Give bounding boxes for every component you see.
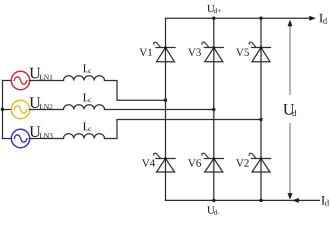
label ULN2 [30, 97, 53, 109]
arrow Ud down [288, 193, 293, 199]
inductor Lc3 [64, 134, 105, 139]
wire top rail [166, 17, 311, 19]
node phase2-leg2 junction [212, 108, 215, 111]
ac source ULN2 [11, 100, 29, 118]
label Lc2 [83, 93, 91, 102]
node bus junction dot [1, 108, 4, 111]
wire phase3 to leg3 midpoint [105, 120, 262, 139]
arrow Ud up [288, 20, 293, 26]
thyristor V4 [154, 153, 175, 172]
label Lc1 [83, 64, 91, 73]
wire bus to source 3 [3, 138, 12, 140]
node top rail leg3 junction [259, 17, 262, 20]
node bottom rail leg3 junction [259, 199, 262, 202]
thyristor V2 [249, 153, 270, 172]
thyristor V3 [202, 42, 223, 62]
label V3 [188, 49, 201, 56]
wire source2 to inductor2 [30, 109, 64, 111]
wire bridge leg 1 vertical [165, 18, 167, 200]
label V2 [236, 159, 249, 166]
label Ud+ [207, 5, 221, 13]
label Ud right [283, 104, 296, 116]
wire Ud measurement line upper [289, 26, 291, 95]
node phase3-leg3 junction [259, 118, 262, 121]
label Id bottom [321, 196, 329, 206]
label Ud- [207, 206, 219, 214]
arrow Id top [309, 16, 316, 21]
ac source ULN1 [11, 71, 29, 89]
label Id top [319, 14, 327, 24]
node phase1-leg1 junction [164, 99, 167, 102]
label V1 [139, 49, 152, 56]
label Lc3 [83, 122, 91, 131]
thyristor V5 [249, 42, 270, 62]
wire source3 to inductor3 [30, 138, 64, 140]
thyristor V1 [154, 42, 175, 62]
label ULN1 [30, 68, 53, 80]
wire bus to source 1 [3, 80, 12, 82]
wire bus to source 2 [3, 109, 12, 111]
wire bottom rail [166, 199, 320, 201]
label V5 [236, 49, 249, 56]
label ULN3 [30, 126, 53, 138]
wire bridge leg 2 vertical [213, 18, 215, 200]
inductor Lc2 [64, 105, 105, 110]
label V6 [188, 159, 201, 166]
ac source ULN3 [11, 129, 29, 147]
thyristor V6 [202, 153, 223, 172]
node bottom rail leg2 junction [212, 199, 215, 202]
wire bridge leg 3 vertical [260, 18, 262, 200]
node top rail leg2 junction [212, 17, 215, 20]
arrow Id bottom (pointing left) [292, 198, 299, 203]
wire source1 to inductor1 [30, 80, 64, 82]
label V4 [142, 159, 155, 166]
wire Ud measurement line lower [289, 124, 291, 194]
wire left bus vertical [2, 81, 4, 139]
wire phase1 to leg1 midpoint [105, 81, 166, 101]
wire phase2 to leg2 midpoint [105, 109, 214, 111]
inductor Lc1 [64, 76, 105, 81]
